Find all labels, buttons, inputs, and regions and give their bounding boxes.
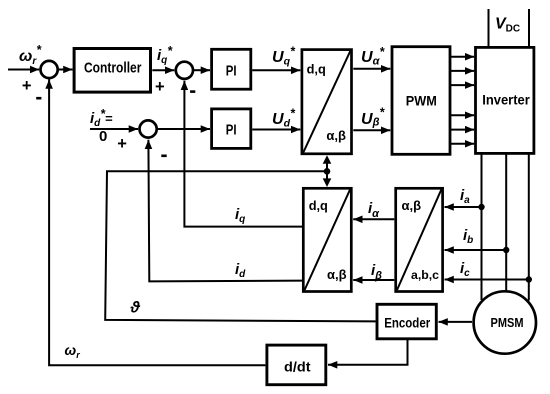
wire: Vdc positive rail [488,9,490,47]
label U_d* [272,107,296,130]
label theta [130,300,141,317]
summing junction S3 [140,120,157,137]
node theta junction [324,168,331,175]
label omega_r feedback [65,342,81,360]
label S3 minus [161,155,166,158]
wire: T1 to PWM (Ubeta*) [353,129,390,131]
svg-text:+: + [155,78,165,96]
svg-text:+: + [22,77,32,95]
wire: Vdc negative rail [528,9,530,47]
wire: phase a from inverter to PMSM [481,155,483,301]
wire: theta from encoder [105,171,375,321]
summing junction S2 [176,62,193,79]
summing junction S1 [41,61,58,78]
block PI2 (d-axis current PI) [212,109,251,148]
svg-text:Controller: Controller [84,60,142,77]
svg-text:Inverter: Inverter [482,91,530,107]
wire: i_alpha from T3 to T2 [353,218,394,220]
svg-text:PWM: PWM [406,93,437,109]
wire: PWM to Inverter gate signal 3 [451,84,474,86]
block PI1 (q-axis current PI) [212,49,251,89]
wire: PWM to Inverter gate signal 2 [451,70,474,72]
wire: i_q feedback to S2 [184,81,302,227]
block PWM [392,47,450,155]
wire: S2 to PI1 [194,69,210,71]
label i_a [460,187,470,206]
wire: ic to Clarke box [445,279,529,281]
label S2 plus [155,78,165,96]
wire: PWM to Inverter gate signal 6 [451,143,474,145]
wire: i_beta from T3 to T2 [353,279,394,281]
label i_q feedback [235,206,245,225]
label V_DC [495,16,520,35]
wire: S3 to PI2 [158,128,210,130]
wire: speed reference input [8,69,39,71]
svg-text:0: 0 [99,128,107,145]
svg-text:a,b,c: a,b,c [411,268,439,282]
node ia tap [478,204,484,210]
svg-text:ϑ: ϑ [130,300,141,317]
svg-text:+: + [117,135,127,153]
wire: i_d feedback to S3 [148,140,302,282]
wire: PI1 to Park box (Uq*) [252,69,300,71]
svg-text:Encoder: Encoder [384,315,430,331]
wire: theta double arrow between T1 and T2 [323,155,332,187]
label S1 minus [36,97,41,100]
label i_c [460,260,470,279]
block Controller [74,49,150,93]
svg-text:d/dt: d/dt [284,359,311,375]
label i_d*=0 (d-current reference) [90,107,113,145]
label i_b [463,227,473,246]
svg-text:PI: PI [226,62,237,79]
label U_q* [272,45,296,68]
label U_beta* [361,106,385,129]
label i_alpha [368,200,380,220]
svg-text:d,q: d,q [307,62,326,77]
wire: ia to Clarke box [445,206,482,208]
wire: phase c from inverter to PMSM [528,155,530,301]
wire: PMSM to Encoder [439,321,473,323]
wire: PWM to Inverter gate signal 1 [451,56,474,58]
wire: omega_r feedback to S1 [49,80,265,366]
wire: Encoder to d/dt [328,340,408,365]
block inverse Park transform T1 (d,q to alpha,beta) [302,50,352,154]
motor PMSM [474,291,536,353]
label i_q* (q-current reference) [157,44,173,66]
wire: S1 to Controller [59,69,73,71]
svg-text:PI: PI [226,122,237,139]
block Inverter [476,47,534,153]
svg-text:d,q: d,q [309,198,328,213]
wire: T1 to PWM (Ualpha*) [353,68,390,70]
label S2 minus [190,90,195,93]
block Park transform T2 (d,q to alpha,beta feedback) [303,188,351,291]
label S3 plus [117,135,127,153]
block d/dt [267,345,326,385]
label omega_r* (speed reference) [19,43,42,67]
label S1 plus [22,77,32,95]
svg-text:PMSM: PMSM [491,316,524,330]
wire: id* input to S3 [90,128,138,130]
svg-text:α,β: α,β [402,198,422,213]
wire: Controller to S2 [152,69,174,71]
wire: phase b from inverter to PMSM [505,155,507,293]
block Encoder [377,304,436,339]
node ib tap [503,247,509,253]
svg-text:α,β: α,β [326,128,346,143]
wire: PWM to Inverter gate signal 5 [451,129,474,131]
node ic tap [526,276,532,282]
wire: PI2 to Park box (Ud*) [252,129,300,131]
wire: ib to Clarke box [445,249,507,251]
label U_alpha* [361,45,385,68]
block Clarke transform T3 (alpha,beta to a,b,c) [396,188,443,291]
label i_beta [371,262,382,282]
label i_d feedback [235,261,246,280]
wire: PWM to Inverter gate signal 4 [451,114,474,116]
svg-text:α,β: α,β [327,267,347,282]
